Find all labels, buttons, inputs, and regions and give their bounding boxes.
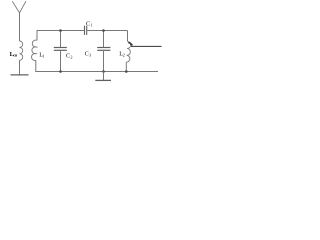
- wire L1 bottom to rail: [36, 60, 158, 71]
- wire Lsv to ground: [19, 60, 21, 75]
- wire rail right corner down to L2: [127, 31, 129, 42]
- wire L1 top to rail: [37, 31, 84, 41]
- node bottom C3: [102, 70, 105, 73]
- svg-text:C: C: [85, 50, 89, 57]
- node bottom C2: [59, 70, 62, 73]
- svg-text:3: 3: [89, 52, 91, 57]
- capacitor C1: [85, 26, 128, 35]
- svg-text:2: 2: [123, 52, 125, 57]
- svg-text:1: 1: [91, 22, 93, 27]
- svg-text:2: 2: [71, 55, 73, 60]
- ground: [95, 79, 111, 81]
- capacitor C3: [97, 31, 110, 72]
- svg-text:C: C: [86, 21, 90, 28]
- inductor L2: [126, 42, 130, 63]
- svg-text:1: 1: [43, 53, 45, 58]
- svg-text:св: св: [13, 53, 18, 58]
- wire L2 bottom: [125, 62, 127, 71]
- ground: [11, 74, 29, 76]
- wire output: [131, 45, 162, 47]
- capacitor C2: [54, 31, 67, 72]
- node L2 bottom: [125, 70, 128, 73]
- inductor Lsv: [20, 41, 23, 60]
- node top C3: [102, 29, 105, 32]
- inductor L1: [32, 40, 37, 60]
- wire output tap: [128, 42, 132, 45]
- node top C2: [59, 29, 62, 32]
- wire antenna lead: [19, 13, 21, 41]
- antenna: [12, 1, 26, 13]
- wire ground stub: [103, 72, 105, 81]
